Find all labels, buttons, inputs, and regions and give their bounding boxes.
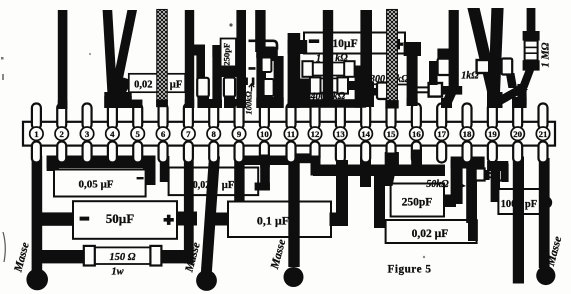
svg-text:50kΩ: 50kΩ: [426, 179, 449, 190]
capacitor 0,02uF box (bottom): [386, 220, 477, 243]
svg-text:7: 7: [186, 129, 191, 139]
drop wire to 0,02uF (bottom): [374, 167, 385, 228]
svg-text:10µF: 10µF: [332, 37, 357, 50]
wire terminal 1 down to ground: [32, 156, 43, 277]
terminal circle 10: [258, 127, 271, 140]
terminal lug 15 (above): [387, 104, 396, 130]
capacitor 100pF box: [498, 189, 540, 214]
terminal lug 20 (below): [513, 142, 522, 163]
svg-text:150 Ω: 150 Ω: [109, 252, 135, 263]
black wire frame around 400kOhm: [299, 79, 310, 108]
terminal circle 14: [359, 127, 372, 140]
terminal lug 4 (below): [108, 142, 117, 163]
wire terminal 18 down to 0,02uF: [466, 164, 477, 223]
terminal lug 11 (below): [287, 142, 296, 163]
shielded cable to terminal 6: [157, 10, 167, 102]
terminal lug 13 (above): [336, 104, 345, 130]
svg-text:8: 8: [212, 129, 217, 139]
svg-text:15: 15: [387, 129, 396, 139]
terminal circle 21: [536, 127, 549, 140]
svg-text:16: 16: [412, 129, 421, 139]
wire W17 to terminal 17: [449, 10, 459, 92]
terminal circle 19: [486, 127, 499, 140]
scan speck: [229, 23, 232, 26]
wire end caps on lugs: [58, 101, 68, 110]
electrolytic capacitor 10uF box: [304, 33, 405, 54]
wire from 10uF plus down to terminal 16: [404, 42, 421, 56]
terminal lug 18 (above): [463, 104, 472, 130]
svg-text:250pF: 250pF: [402, 197, 433, 209]
terminal lug 16 (below): [412, 142, 421, 163]
wire 250pF right to terminals 17-18: [443, 195, 456, 208]
terminal circle 20: [511, 127, 524, 140]
junction dot 100pF right: [540, 196, 552, 208]
terminal lug 12 (above): [311, 104, 320, 130]
terminal lug 21 (below): [539, 142, 548, 163]
terminal lug 11 (above): [287, 104, 296, 130]
terminal lug 19 (below): [488, 142, 497, 163]
wire frame above 0,05uF: [47, 156, 156, 169]
resistor 400kOhm (horizontal): [310, 78, 348, 92]
wire terminal 21 down to ground: [539, 158, 550, 268]
terminal lug 17 (above): [437, 104, 446, 130]
terminal lug 15 (below): [387, 142, 396, 163]
svg-text:18: 18: [463, 129, 472, 139]
dashed hidden-connection outline: [237, 39, 266, 42]
svg-text:10: 10: [260, 129, 269, 139]
wire from 10uF minus down to terminal 11: [288, 40, 308, 54]
svg-text:50µF: 50µF: [106, 211, 134, 226]
wire W7 to terminal 7: [185, 10, 194, 108]
terminal lug 13 (below): [336, 142, 345, 163]
svg-text:21: 21: [539, 129, 548, 139]
svg-text:250pF: 250pF: [222, 43, 232, 66]
terminal lug 9 (above): [235, 104, 244, 130]
wire terminal 9 into 0,1uF: [234, 157, 244, 204]
terminal lug 10 (below): [260, 142, 269, 163]
wire terminal 20 down (through 100pF): [513, 157, 524, 284]
svg-text:5: 5: [136, 129, 141, 139]
junction blob terminal 4: [104, 92, 131, 108]
terminal circle 3: [80, 127, 93, 140]
capacitor body bridging pair: [477, 60, 490, 73]
long wire through 10uF box (terminal 12/13): [323, 10, 333, 107]
svg-text:17: 17: [437, 129, 446, 139]
terminal circle 7: [182, 127, 195, 140]
terminal lug 7 (above): [184, 104, 193, 130]
ground dot terminal 21: [536, 266, 555, 285]
terminal lug 1 (below): [32, 142, 41, 163]
wire terminal 11-12 jog to terminal 17: [296, 153, 317, 163]
trimmer 1kOhm between terminals 16-17: [416, 86, 430, 88]
diagonal wire terminal 19 to terminal 20: [494, 83, 528, 107]
svg-text:µF: µF: [170, 80, 182, 91]
wire W9 to terminal 9: [236, 10, 246, 108]
terminal strip bar: [23, 122, 555, 146]
terminal circle 15: [384, 127, 397, 140]
wire W10 to terminal 10 with junction blob: [255, 10, 265, 52]
svg-text:14: 14: [361, 129, 370, 139]
wire terminal 11 down to ground: [288, 157, 299, 268]
terminal circle 17: [435, 127, 448, 140]
svg-text:pF: pF: [525, 199, 537, 210]
terminal lug 3 (above): [83, 104, 92, 130]
terminal lug 18 (below): [463, 142, 472, 163]
wire pair V into terminal 19: [467, 8, 500, 101]
terminal lug 10 (above): [260, 104, 269, 130]
terminal circle 4: [106, 127, 119, 140]
capacitor body above trimmer: [429, 61, 438, 85]
svg-text:19: 19: [488, 129, 497, 139]
terminal lug 16 (above): [412, 104, 421, 130]
capacitor 0,05uF box: [54, 170, 146, 197]
electrolytic 50uF box: [38, 212, 75, 225]
resistor 1MOhm (vertical): [527, 8, 536, 32]
elbow 0,1uF to terminal 13 lug: [330, 213, 349, 227]
capacitor 250pF (vertical box): [221, 39, 236, 70]
svg-text:1w: 1w: [111, 267, 124, 278]
terminal lug 4 (above): [108, 104, 117, 130]
trimmer 50kOhm below strip: [476, 169, 485, 181]
capacitor body between terminals 7-8: [190, 45, 206, 56]
capacitor body at terminal 14: [377, 83, 387, 100]
terminal lug 9 (below): [235, 142, 244, 163]
svg-text:12: 12: [311, 129, 320, 139]
elbow terminal 10 to 0,02uF: [260, 155, 270, 191]
wire terminal 14 down: [360, 157, 371, 188]
terminal circle 8: [207, 127, 220, 140]
svg-text:2: 2: [60, 129, 65, 139]
wire W2 to terminal 2: [58, 10, 68, 108]
svg-text:13: 13: [336, 129, 345, 139]
terminal lug 2 (above): [57, 104, 66, 130]
terminal circle 12: [308, 127, 321, 140]
wire terminal 8 down to ground: [201, 157, 221, 278]
svg-text:11: 11: [287, 129, 295, 139]
ground dot terminal 11: [284, 267, 304, 287]
svg-text:0,02: 0,02: [134, 80, 152, 91]
below-lug black connections over lugs: [260, 155, 270, 168]
terminal lug 1 (above): [32, 104, 41, 130]
terminal lug 6 (below): [159, 142, 168, 163]
terminal lug 20 (above): [513, 104, 522, 130]
terminal circle 18: [460, 127, 473, 140]
svg-text:9: 9: [237, 129, 242, 139]
terminal circle 11: [284, 127, 297, 140]
terminal lug 12 (below): [311, 142, 320, 163]
edge specks: [1, 57, 4, 60]
ground dot terminal 8: [196, 270, 217, 291]
terminal circle 2: [55, 127, 68, 140]
terminal lug 8 (below): [209, 142, 218, 163]
terminal circle 6: [156, 127, 169, 140]
capacitor 0,02uF box (below strip): [169, 168, 259, 196]
svg-text:1 MΩ: 1 MΩ: [541, 42, 552, 67]
terminal lug 5 (above): [133, 104, 142, 130]
terminal circle 1: [30, 127, 43, 140]
svg-text:0,1 µF: 0,1 µF: [257, 214, 289, 228]
svg-text:6: 6: [161, 129, 166, 139]
terminal circle 9: [232, 127, 245, 140]
wire from terminal 8 up to 250pF: [212, 45, 221, 107]
terminal lug 7 (below): [184, 142, 193, 163]
svg-text:Figure 5: Figure 5: [388, 264, 432, 276]
resistor 150 Ohm 1W: [38, 250, 87, 263]
wire terminal 9 to terminal 11: [244, 156, 290, 166]
terminal lug 14 (below): [361, 142, 370, 163]
svg-text:0,05 µF: 0,05 µF: [78, 179, 113, 191]
wire terminal 4 to terminal 5: [115, 100, 143, 108]
terminal lug 2 (below): [57, 142, 66, 163]
terminal lug 5 (below): [133, 142, 142, 163]
terminal lug 21 (above): [539, 104, 548, 130]
diagonal lead terminal 15 to 250pF: [383, 164, 397, 186]
svg-text:1: 1: [34, 129, 38, 139]
terminal lug 6 (above): [159, 104, 168, 130]
capacitor 250pF box (below): [391, 184, 444, 217]
wire terminal 7 down: [184, 157, 194, 264]
capacitor C1 0,02uF label box (top left): [110, 78, 133, 104]
terminal circle 16: [410, 127, 423, 140]
ground dot terminal 1: [26, 269, 48, 291]
terminal lug 8 (above): [209, 104, 218, 130]
svg-text:3: 3: [85, 129, 90, 139]
svg-text:4: 4: [110, 129, 115, 139]
wire pair V into terminal 4: [103, 10, 118, 96]
terminal lug 17 (below): [437, 142, 446, 163]
terminal lug 19 (above): [488, 104, 497, 130]
svg-text:µF: µF: [222, 180, 234, 191]
terminal lug 14 (above): [361, 104, 370, 130]
capacitor body between terminals 8-9: [219, 66, 237, 78]
svg-text:20: 20: [513, 129, 522, 139]
capacitor 0,1uF box: [212, 213, 230, 226]
wire terminal 19 to 100pF: [487, 161, 508, 171]
svg-text:0,02 µF: 0,02 µF: [412, 228, 449, 240]
loop with capacitor bodies at terminal 10: [256, 55, 266, 108]
terminal lug 3 (below): [83, 142, 92, 163]
elbow terminal 6 to 0,02uF: [160, 156, 170, 182]
terminal circle 13: [334, 127, 347, 140]
capacitor body above terminal 20: [506, 73, 517, 88]
wire to terminal 14 with junction blob: [360, 10, 372, 86]
shielded cable to terminal 15: [387, 10, 398, 102]
terminal circle 5: [131, 127, 144, 140]
